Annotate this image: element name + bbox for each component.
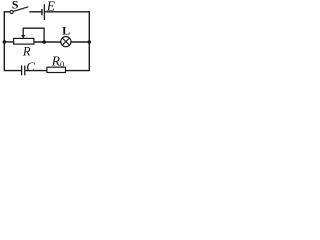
svg-text:R0: R0 xyxy=(51,53,65,69)
svg-text:L: L xyxy=(62,24,70,38)
wire: top-left to switch xyxy=(4,11,10,13)
lamp L filament cross xyxy=(62,38,69,45)
capacitor C left plate xyxy=(21,66,23,76)
wire: capacitor to resistor R0 xyxy=(25,70,47,72)
rheostat R body xyxy=(14,38,34,44)
lamp L bulb circle xyxy=(61,37,71,47)
node: junction dot slider tap / middle wire xyxy=(42,40,46,44)
wire: middle left segment xyxy=(4,41,13,43)
switch S blade xyxy=(13,7,28,12)
capacitor C right plate xyxy=(24,66,26,76)
wire: battery to top-right corner xyxy=(45,11,90,13)
resistor R0 body xyxy=(47,67,66,72)
wire: left rail xyxy=(3,11,5,70)
battery E long plate (positive) xyxy=(43,4,45,20)
svg-text:C: C xyxy=(26,59,35,74)
wire: lamp to right rail xyxy=(71,41,89,43)
rheostat R slider arrowhead xyxy=(21,35,25,38)
node: junction dot right rail / middle wire xyxy=(88,40,92,44)
rheostat slider wire xyxy=(23,28,44,42)
wire: rheostat to lamp xyxy=(34,41,61,43)
svg-text:S: S xyxy=(12,0,19,12)
switch S pivot circle xyxy=(10,10,13,13)
wire: resistor R0 to bottom-right corner xyxy=(66,70,90,72)
wire: bottom-left to capacitor xyxy=(4,70,21,72)
wire: switch to battery xyxy=(29,11,41,13)
svg-text:R: R xyxy=(22,45,31,59)
node: junction dot left rail / middle wire xyxy=(3,40,7,44)
battery E short plate (negative) xyxy=(41,9,43,15)
wire: right rail xyxy=(88,11,90,70)
